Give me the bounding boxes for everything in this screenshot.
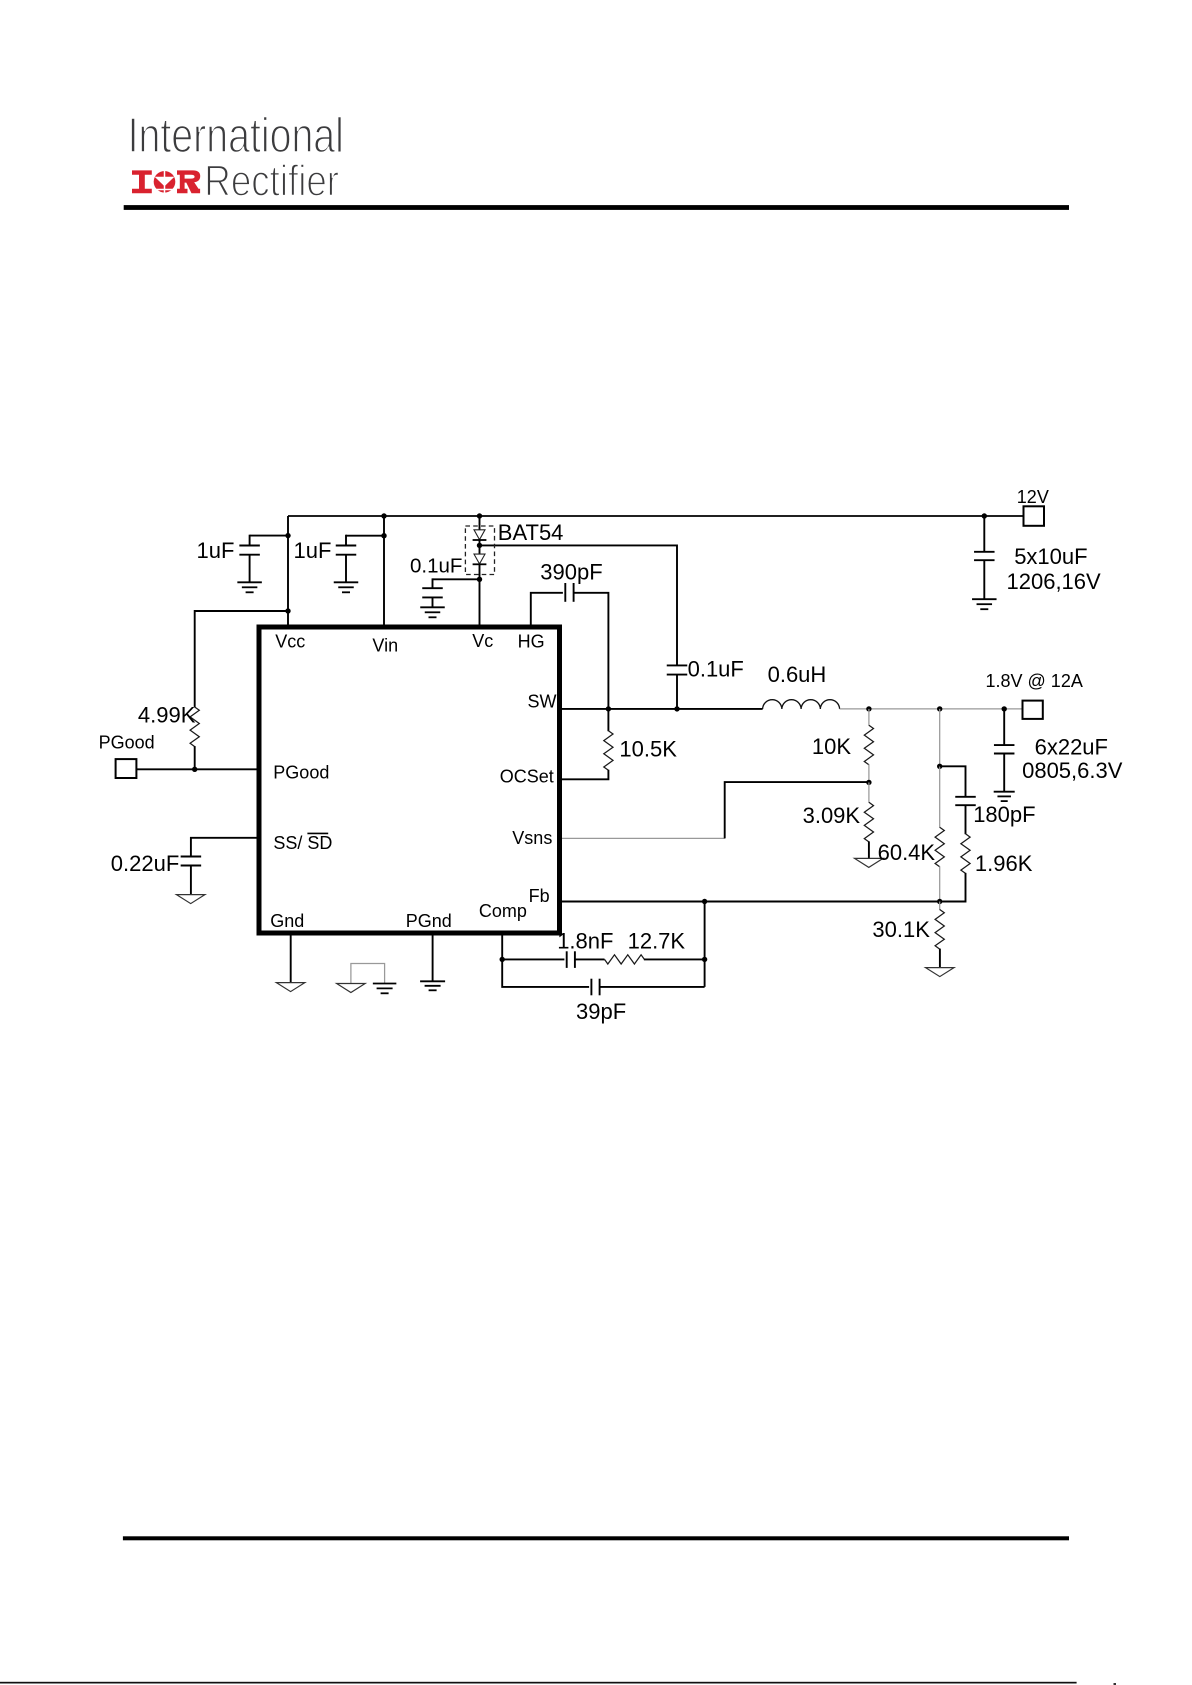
op-amp U1 IC body [259,627,560,933]
wire cap2 lower lead [345,555,347,583]
capacitor C9 1.8nF [566,951,568,968]
svg-text:12.7K: 12.7K [628,929,686,954]
connector 12V square [1024,506,1045,526]
wire Vin vertical [383,516,385,626]
wire OCSet [561,770,608,780]
wire C4 lower lead [676,675,678,709]
connector PGood square [116,759,137,778]
wire 60.4K upper lead [939,766,941,827]
resistor R3 10K [864,725,873,765]
node Vout-cap dot [1002,706,1007,711]
wire 39pF left [502,959,589,987]
ground 30.1K triangle [926,968,955,977]
svg-text:0.22uF: 0.22uF [111,851,180,876]
svg-text:10K: 10K [812,734,851,759]
wire Vc vertical [479,564,481,626]
svg-text:1206,16V: 1206,16V [1007,569,1102,594]
svg-text:0.1uF: 0.1uF [410,554,462,577]
svg-text:0.6uH: 0.6uH [768,662,827,687]
wire PGood [136,768,258,770]
wire 3.09K bottom lead [868,841,870,858]
wire C7 top lead [1003,709,1005,745]
wire Fb drop [704,902,706,987]
svg-text:Vc: Vc [472,631,493,651]
wire Gnd pin [290,934,292,983]
resistor R4 3.09K [864,802,873,842]
wire 3.09K top lead [868,782,870,802]
resistor R5 60.4K [935,827,944,867]
bottom rule [0,1682,1077,1684]
wire Vsns gray [561,837,725,839]
inductor L1 0.6uH [763,700,840,709]
wire SS [191,838,258,856]
resistor R6 1.96K [961,834,970,874]
svg-text:Gnd: Gnd [270,911,304,931]
wire 30.1K bottom lead [939,949,941,968]
wire 30.1K top lead [939,902,941,910]
ground PGnd bars [420,980,445,982]
svg-text:Vin: Vin [372,635,398,655]
wire C11 lower lead [190,866,192,895]
capacitor C7 6x22uF [994,744,1015,746]
svg-text:SS/ SD: SS/ SD [273,833,332,853]
wire cap1 lower lead [249,555,251,583]
capacitor C11 0.22uF [181,856,202,858]
node SW-boot dot [674,706,679,711]
wire C5 right lead [574,593,609,709]
node Fb-30.1K dot [937,899,942,904]
capacitor C8 5x10uF [974,551,995,553]
node Vin-cap dot [381,533,386,538]
capacitor C10 39pF [590,979,592,996]
wire Fb [561,901,940,903]
svg-text:1.8V @ 12A: 1.8V @ 12A [986,671,1083,691]
node RC-39pF dot [702,957,707,962]
capacitor C5 390pF [564,583,566,602]
svg-text:180pF: 180pF [973,802,1035,827]
svg-text:1uF: 1uF [197,538,235,563]
svg-text:10.5K: 10.5K [619,736,677,761]
capacitor C6 180pF [955,796,976,798]
node Vout-10K dot [866,706,871,711]
resistor R8 12.7K [605,955,645,964]
node Vc dot [477,577,482,582]
ground SS triangle [176,895,205,904]
svg-text:0.1uF: 0.1uF [688,656,744,681]
wire Vcc-4.99K [195,611,288,707]
capacitor C1 1uF [239,545,260,547]
wire Comp pin [501,934,503,959]
page mark dot [1114,1683,1117,1685]
node PGood dot [192,767,197,772]
node rail-BAT54 dot [477,513,482,518]
svg-text:4.99K: 4.99K [138,702,196,727]
svg-text:6x22uF: 6x22uF [1035,734,1108,759]
wire 180pF-1.96K lead [965,805,967,834]
wire Vsns step [725,782,869,838]
wire PGnd pin [432,934,434,981]
wire HG lead [531,593,563,626]
svg-text:HG: HG [518,632,545,652]
svg-text:PGnd: PGnd [406,911,452,931]
node Comp dot [500,957,505,962]
node rail-Vin dot [381,513,386,518]
BAT54 dashed box [465,526,494,575]
node Vcc-4.99K dot [285,608,290,613]
wire 10K top lead [868,709,870,726]
svg-text:3.09K: 3.09K [803,803,861,828]
svg-text:SW: SW [528,692,557,712]
logo IOR red mark [132,170,152,193]
svg-text:39pF: 39pF [576,999,626,1024]
diode D2 BAT54 bottom [474,554,485,564]
node div-180pF dot [937,764,942,769]
capacitor C4 0.1uF boot [667,664,688,666]
svg-text:OCSet: OCSet [500,766,554,786]
wire 1.96K bottom lead [940,873,966,902]
resistor R1 4.99K [190,707,199,747]
wire 10K bottom lead [868,764,870,782]
wire C8 top lead [983,516,985,552]
svg-text:390pF: 390pF [540,559,602,584]
svg-text:1.96K: 1.96K [975,851,1033,876]
wire 4.99K bottom lead [194,746,196,769]
wire C9-R8 [575,958,605,960]
wire Comp-C9 [502,958,564,960]
wire C8 lower lead [983,560,985,599]
ground cap2 [334,581,359,583]
wire 10.5K top lead [607,709,609,731]
wire BAT54 top lead [479,516,481,530]
svg-text:30.1K: 30.1K [872,917,930,942]
node BAT54 mid dot [479,540,481,554]
wire Vout gray [840,708,1024,710]
svg-text:0805,6.3V: 0805,6.3V [1022,758,1123,783]
ground cap1 [237,581,262,583]
capacitor C2 1uF [336,545,357,547]
wire cap2 stub [346,535,384,537]
svg-text:1.8nF: 1.8nF [557,929,613,954]
wire 12V rail [288,515,1024,517]
svg-text:12V: 12V [1017,487,1049,507]
resistor R7 30.1K [935,910,944,950]
svg-text:Fb: Fb [529,886,550,906]
wire 39pF right [600,986,705,988]
svg-text:BAT54: BAT54 [498,520,564,545]
svg-text:Vsns: Vsns [512,828,552,848]
svg-text:Comp: Comp [479,901,527,921]
ground Gnd triangle [276,983,305,992]
wire C3 lower lead [432,597,434,607]
svg-text:60.4K: 60.4K [878,840,936,865]
ground C3 [420,606,445,608]
footer rule [123,1536,1069,1540]
wire Vcc vertical [287,516,289,626]
svg-text:5x10uF: 5x10uF [1014,544,1087,569]
diode D1 BAT54 top [474,530,485,540]
svg-text:1uF: 1uF [294,538,332,563]
capacitor C3 0.1uF [422,587,443,589]
net-tie bracket [351,964,385,984]
wire cap1 stub [250,535,288,537]
node Vout-div dot [937,706,942,711]
ground 3.09K triangle [855,858,884,867]
node Fb-RC dot [702,899,707,904]
header rule [124,205,1069,210]
wire R8-Fb [644,958,705,960]
svg-text:Rectifier: Rectifier [204,155,339,205]
node Vcc-cap dot [285,533,290,538]
svg-text:Vcc: Vcc [275,632,305,652]
node SW-390pF dot [606,706,611,711]
connector Vout square [1023,701,1043,719]
wire div top gray [939,709,941,766]
svg-text:PGood: PGood [273,763,329,783]
ground C8 [972,598,997,600]
wire 180pF branch [940,766,966,796]
node rail-5x10uF dot [982,513,987,518]
wire SW [561,708,763,710]
ground net-tie bars [373,983,397,985]
svg-text:PGood: PGood [99,732,155,752]
wire C7 lower lead [1003,754,1005,792]
wire 60.4K lower lead [939,866,941,901]
wire Vc-cap stub [433,578,480,580]
wire boot top [480,545,678,665]
node 10K-3.09K dot [866,780,871,785]
resistor R2 10.5K [604,731,613,771]
ground C7 [994,791,1015,793]
ground net-tie triangle [337,984,366,993]
